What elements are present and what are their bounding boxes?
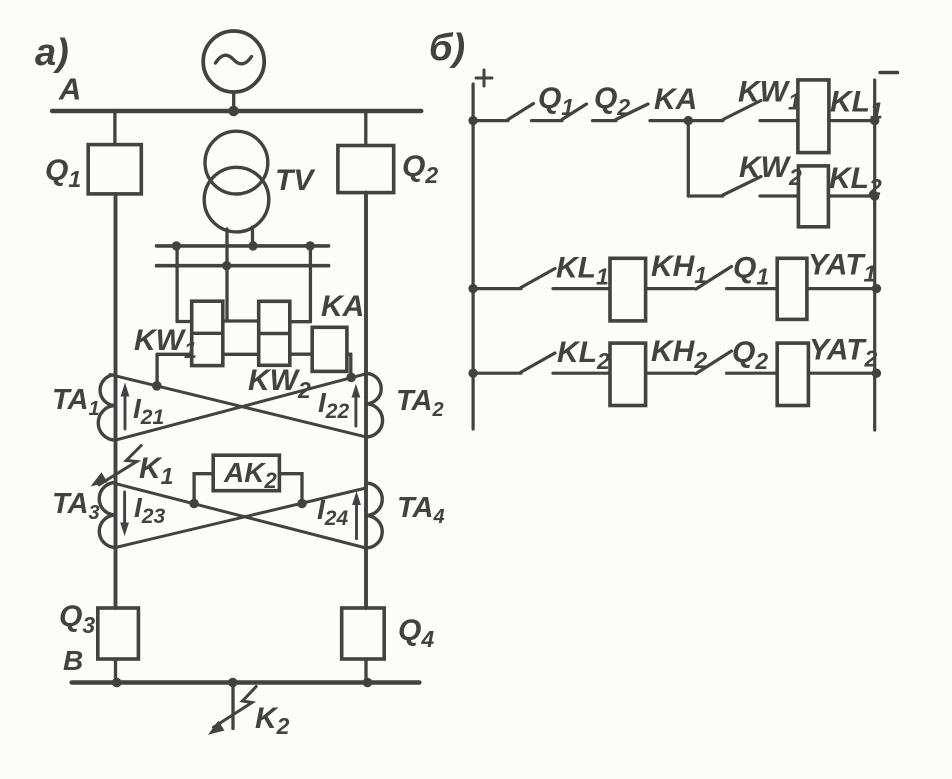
svg-text:TV: TV [275, 164, 316, 197]
svg-text:a): a) [35, 32, 69, 74]
svg-text:б): б) [429, 27, 465, 69]
svg-text:B: B [63, 645, 83, 676]
svg-text:KA: KA [654, 83, 697, 116]
svg-text:A: A [58, 72, 81, 107]
svg-text:KA: KA [321, 290, 364, 323]
